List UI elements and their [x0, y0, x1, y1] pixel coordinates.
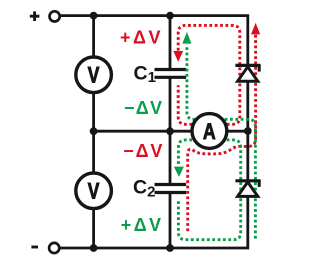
terminal + (positive input)	[30, 11, 60, 21]
node top-left junction	[90, 12, 98, 20]
svg-text:+ΔV: +ΔV	[120, 28, 163, 48]
node bottom capacitor junction	[166, 244, 174, 252]
voltmeter V2	[76, 173, 112, 209]
svg-text:+ΔV: +ΔV	[121, 215, 164, 235]
wire left bus	[92, 16, 95, 248]
wire middle rail	[93, 130, 248, 133]
wire green dotted branch from C1 around right to bottom	[187, 45, 256, 240]
node bottom-left junction	[90, 244, 98, 252]
node top capacitor junction	[166, 12, 174, 20]
diode D2 (bottom right)	[235, 181, 260, 197]
node middle capacitor junction	[166, 127, 174, 135]
voltmeter V1	[76, 57, 112, 93]
svg-text:V: V	[88, 179, 100, 204]
svg-text:−ΔV: −ΔV	[123, 141, 164, 161]
green arrow into C2	[174, 167, 184, 177]
wire capacitor column lower segment	[169, 193, 172, 248]
wire capacitor column middle segment	[169, 78, 172, 184]
wire green dotted loop around C2 cell	[178, 140, 240, 240]
red arrow up at top right	[251, 23, 260, 35]
svg-text:A: A	[203, 119, 216, 144]
wire capacitor column upper segment	[169, 16, 172, 69]
wire red dotted branch down right side to C2	[188, 35, 256, 233]
capacitor C2 plates	[155, 185, 187, 193]
node middle-left junction	[90, 127, 98, 135]
red arrow into C1	[173, 51, 183, 62]
node middle-right junction	[244, 127, 252, 135]
wire top rail / right bus / bottom rail	[60, 16, 248, 248]
wire red dotted charging loop around C1 cell	[178, 25, 240, 124]
svg-text:V: V	[88, 63, 100, 88]
green arrow up above C1	[182, 32, 191, 44]
terminal - (negative input)	[31, 243, 59, 253]
svg-text:−ΔV: −ΔV	[124, 98, 163, 118]
ammeter A	[192, 114, 227, 149]
capacitor C1 plates	[155, 70, 187, 78]
diode D1 (top right)	[235, 65, 260, 81]
